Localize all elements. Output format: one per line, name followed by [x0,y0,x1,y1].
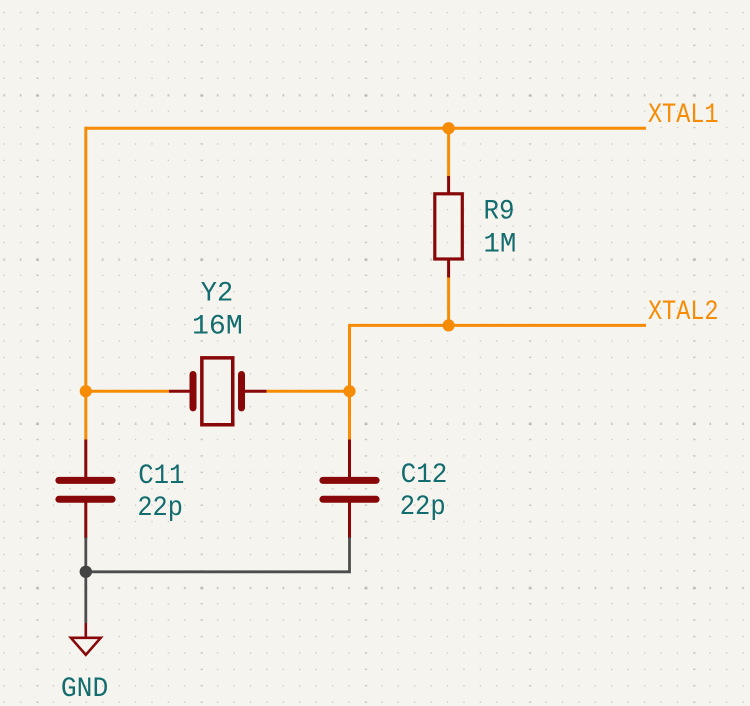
ground symbol [71,638,101,655]
crystal Y2 left electrode [190,375,197,408]
capacitor C11 bottom plate [59,496,112,503]
resistor R9 pins [447,176,450,278]
crystal Y2 body [202,358,233,425]
wire crystal right [266,390,350,393]
svg-text:C12: C12 [401,460,448,491]
wire crystal left [86,390,169,393]
wire GND left vertical [84,538,87,572]
svg-text:16M: 16M [192,311,243,342]
wire left vertical [84,127,87,441]
wire XTAL2 horizontal [350,324,647,327]
svg-text:1M: 1M [483,230,516,261]
capacitor C12 bottom plate [323,496,376,503]
svg-text:C11: C11 [138,461,184,492]
junction left crystal [80,385,92,397]
svg-text:22p: 22p [137,493,183,524]
capacitor C12 pins [348,440,351,539]
capacitor C11 pins [84,440,87,539]
crystal Y2 right electrode [238,375,245,408]
crystal Y2 pins [169,390,267,393]
junction right crystal [343,385,355,397]
svg-text:XTAL1: XTAL1 [648,100,719,131]
capacitor C11 top plate [59,477,112,484]
junction XTAL1 [443,122,455,134]
wire right vertical [348,324,351,441]
svg-text:XTAL2: XTAL2 [648,297,719,328]
wire R9 top [447,128,450,176]
wire GND stub [84,572,87,623]
svg-text:22p: 22p [400,492,446,523]
wire XTAL1 horizontal [86,127,646,130]
svg-text:Y2: Y2 [201,279,233,310]
junction XTAL2 [443,319,455,331]
resistor R9 body [435,194,463,259]
ground pin [85,623,88,638]
wire R9 bottom [447,277,450,325]
capacitor C12 top plate [323,477,376,484]
junction GND [80,566,92,578]
svg-text:R9: R9 [484,196,515,227]
svg-text:GND: GND [61,674,108,705]
wire GND horizontal + right vertical [86,538,350,572]
